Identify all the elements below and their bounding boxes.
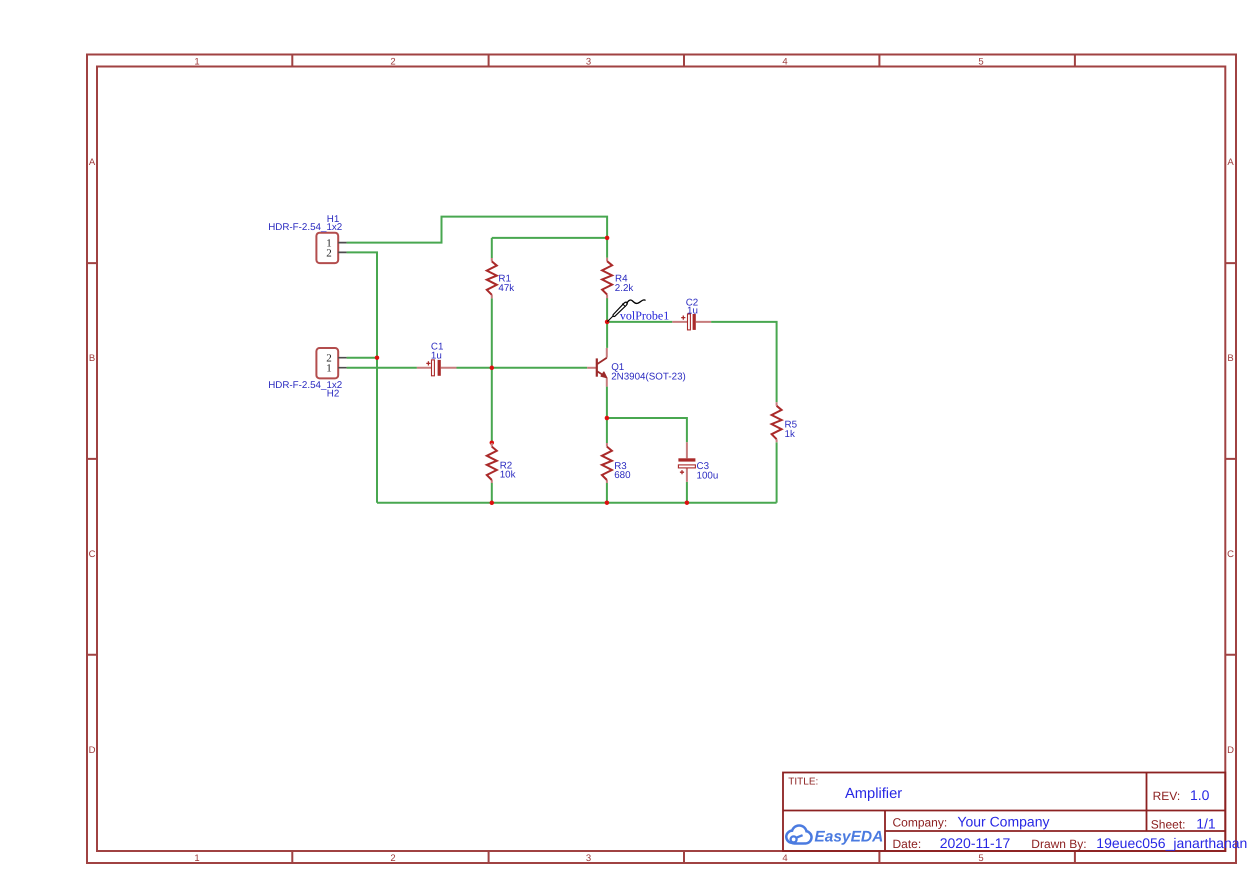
- svg-text:2: 2: [326, 248, 332, 260]
- wire probe node to collector: [606, 322, 608, 348]
- svg-text:1u: 1u: [431, 350, 442, 361]
- wire C1 to Q1 base: [457, 367, 588, 369]
- svg-text:4: 4: [782, 57, 787, 68]
- svg-text:1: 1: [194, 57, 199, 68]
- svg-text:HDR-F-2.54_1x2: HDR-F-2.54_1x2: [268, 222, 342, 233]
- node emitter junction: [605, 416, 610, 421]
- node collector/probe junction: [605, 320, 610, 325]
- EasyEDA logo: [788, 827, 884, 846]
- svg-text:100u: 100u: [697, 471, 719, 482]
- node R3 ground junction: [605, 500, 610, 505]
- resistor R3: [602, 443, 631, 483]
- svg-text:C: C: [89, 549, 96, 560]
- svg-text:Amplifier: Amplifier: [845, 786, 902, 802]
- node VCC/R1/R4 junction: [605, 236, 610, 241]
- svg-text:1.0: 1.0: [1190, 787, 1210, 803]
- svg-text:1: 1: [194, 853, 199, 864]
- svg-text:D: D: [1227, 745, 1234, 756]
- svg-text:1k: 1k: [785, 429, 795, 440]
- wire R4 node down: [606, 238, 608, 258]
- svg-text:Date:: Date:: [893, 837, 922, 851]
- svg-text:EasyEDA: EasyEDA: [814, 829, 883, 846]
- capacitor C1: [417, 342, 457, 376]
- wire R5 bottom corner: [776, 442, 778, 502]
- svg-text:A: A: [89, 157, 96, 168]
- transistor Q1: [587, 348, 686, 387]
- wire ground rail: [377, 502, 777, 504]
- svg-text:Drawn By:: Drawn By:: [1031, 837, 1086, 851]
- wire rail R1 top to R4 node: [492, 237, 607, 239]
- node base/C1 junction: [490, 366, 495, 371]
- capacitor C3: [678, 442, 718, 482]
- voltage probe volProbe1: [607, 300, 669, 323]
- wire H2 pin 1 to C1: [347, 367, 417, 369]
- node R2 top junction: [490, 440, 495, 445]
- wire node C to C3 top: [607, 418, 687, 442]
- svg-text:Your Company: Your Company: [957, 814, 1049, 830]
- svg-text:volProbe1: volProbe1: [620, 308, 669, 322]
- wire R1 column top: [491, 238, 493, 258]
- svg-text:B: B: [89, 353, 95, 364]
- svg-text:19euec056_janarthanan: 19euec056_janarthanan: [1096, 835, 1247, 851]
- resistor R1: [487, 258, 514, 298]
- svg-text:680: 680: [614, 470, 631, 481]
- wire VCC from H1 pin 1 to top rail: [347, 217, 607, 243]
- wire R3 bottom to ground rail: [606, 483, 608, 503]
- svg-text:47k: 47k: [498, 283, 514, 294]
- wire C3 bottom to rail: [686, 482, 688, 503]
- wire H2 pin 2 stub: [347, 357, 377, 359]
- wire emitter down to node C: [606, 387, 608, 418]
- svg-text:4: 4: [782, 853, 787, 864]
- svg-text:Sheet:: Sheet:: [1151, 818, 1186, 832]
- svg-text:2N3904(SOT-23): 2N3904(SOT-23): [611, 371, 686, 382]
- svg-text:2020-11-17: 2020-11-17: [940, 835, 1011, 851]
- wire H1 pin 2 down left side: [347, 252, 377, 502]
- connector H2: [268, 348, 346, 400]
- H2 pin leads: [338, 358, 346, 368]
- svg-text:1u: 1u: [687, 306, 698, 317]
- svg-text:TITLE:: TITLE:: [788, 776, 818, 787]
- svg-text:1/1: 1/1: [1196, 816, 1216, 832]
- wire node C down to R3: [606, 418, 608, 443]
- svg-text:H2: H2: [327, 389, 340, 400]
- svg-text:3: 3: [586, 853, 591, 864]
- svg-text:C: C: [1227, 549, 1234, 560]
- resistor R2: [487, 443, 516, 483]
- H1 body: [316, 233, 338, 263]
- svg-text:1: 1: [326, 363, 332, 375]
- svg-text:REV:: REV:: [1153, 789, 1181, 803]
- wire probe node to C2: [607, 321, 672, 323]
- resistor R4: [602, 258, 633, 298]
- node H2 pin2 junction: [375, 355, 380, 360]
- wire R4 bottom to probe node: [606, 298, 608, 322]
- svg-text:3: 3: [586, 57, 591, 68]
- svg-text:10k: 10k: [500, 470, 516, 481]
- svg-text:5: 5: [978, 853, 983, 864]
- resistor R5: [772, 402, 798, 442]
- H1 pin leads: [338, 243, 346, 253]
- svg-text:5: 5: [978, 57, 983, 68]
- svg-text:2.2k: 2.2k: [615, 283, 634, 294]
- svg-text:A: A: [1227, 157, 1234, 168]
- node C3 ground junction: [685, 500, 690, 505]
- capacitor C2: [672, 298, 711, 330]
- H2 body: [316, 348, 338, 378]
- svg-text:D: D: [89, 745, 96, 756]
- svg-text:2: 2: [390, 57, 395, 68]
- node R2 ground junction: [490, 501, 495, 506]
- svg-text:2: 2: [390, 853, 395, 864]
- wire base node down to R2: [491, 368, 493, 443]
- wire C2 to R5 top: [711, 322, 777, 402]
- svg-text:Company:: Company:: [893, 816, 948, 830]
- svg-text:B: B: [1227, 353, 1233, 364]
- connector H1: [268, 214, 346, 263]
- wire R2 bottom to ground rail: [491, 483, 493, 503]
- wire R1 bottom to base node: [491, 298, 493, 367]
